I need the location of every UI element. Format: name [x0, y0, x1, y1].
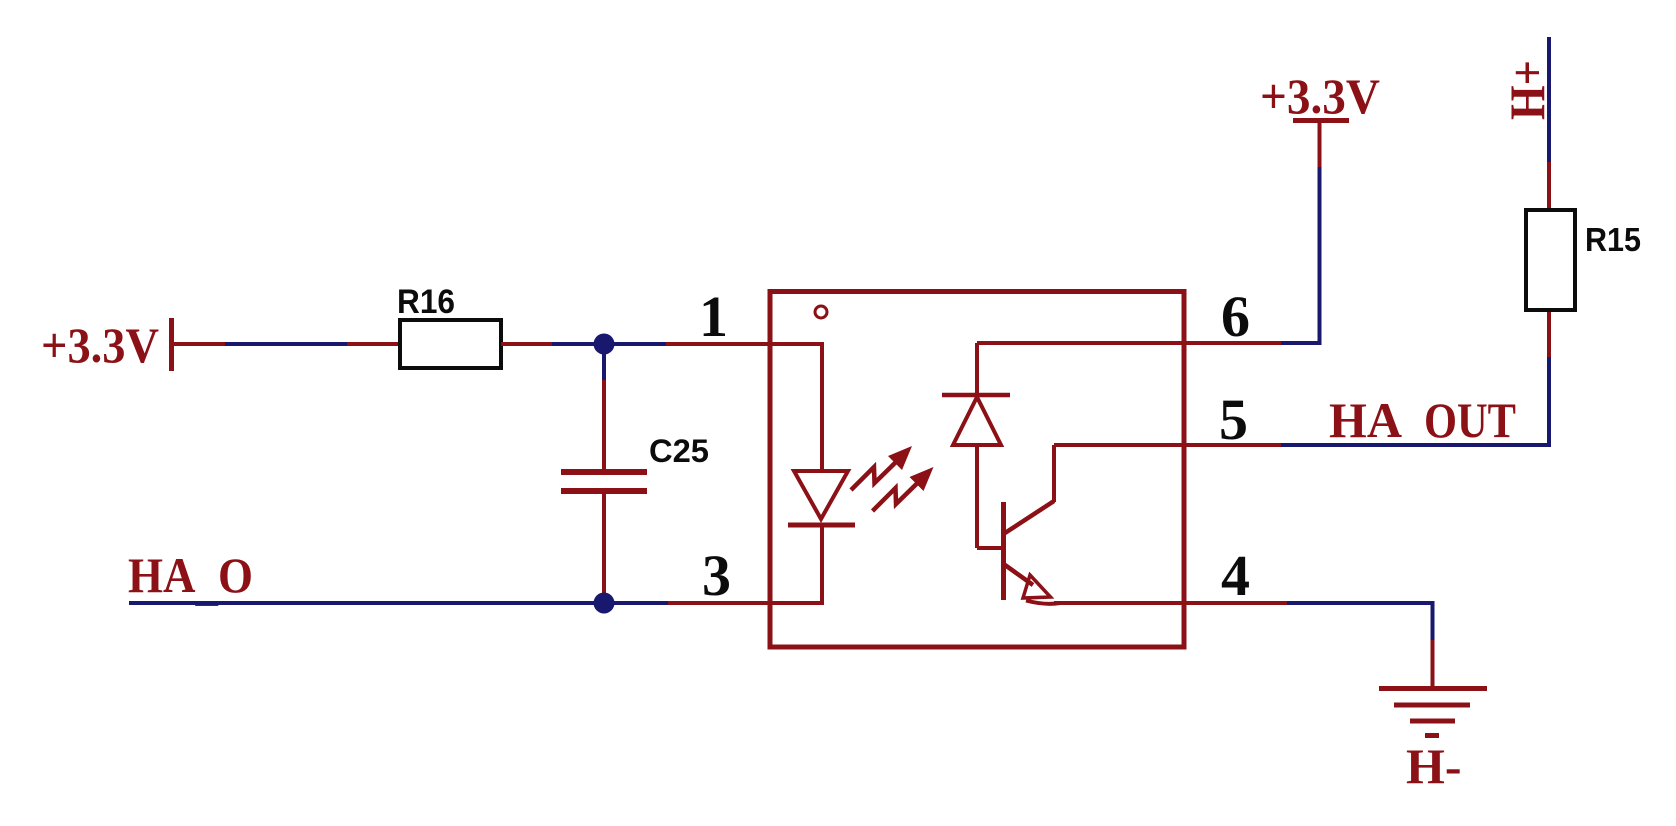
- pin 5 wire (blue segment): [1281, 443, 1551, 447]
- net label HA_OUT: [1329, 392, 1516, 448]
- wire HA_O rail (blue): [129, 601, 668, 605]
- wire corner up to +3.3V (blue): [1318, 167, 1322, 345]
- power +3.3V (left): [41, 317, 172, 373]
- wire node B to pin 3 (red segment into box): [668, 601, 824, 605]
- pin 1 indicator dot: [815, 306, 827, 318]
- svg-text:HA: HA: [1329, 392, 1402, 448]
- photodiode: [942, 343, 1010, 548]
- pin 6 wire (blue segment to corner): [1281, 341, 1322, 345]
- svg-text:OUT: OUT: [1424, 392, 1516, 448]
- wire node A to pin 1 (red segment into box): [666, 342, 824, 346]
- svg-text:R16: R16: [397, 283, 455, 321]
- svg-text:H-: H-: [1406, 738, 1462, 794]
- svg-text:HA_O: HA_O: [128, 547, 253, 610]
- wire +3.3V to R16 (blue segment): [225, 342, 347, 346]
- wire corner down to ground (blue): [1431, 603, 1435, 640]
- svg-text:+3.3V: +3.3V: [41, 317, 159, 373]
- wire +3.3V to R16 (red segment): [174, 342, 225, 346]
- node A junction dot: [594, 334, 615, 355]
- wire node A to pin 1 (blue segment): [604, 342, 666, 346]
- svg-text:1: 1: [699, 284, 728, 349]
- svg-text:+3.3V: +3.3V: [1260, 68, 1380, 124]
- pin 6 wire (red segment): [977, 341, 1281, 345]
- wire to R15 bottom (red): [1547, 312, 1551, 357]
- wire R15 top (red): [1547, 162, 1551, 208]
- svg-text:6: 6: [1221, 284, 1250, 349]
- power +3.3V (top): [1260, 68, 1380, 124]
- phototransistor: [1004, 445, 1061, 604]
- resistor R15: [1526, 210, 1575, 310]
- pin 5 wire (red segment): [1054, 443, 1281, 447]
- wire to H+ (blue): [1547, 37, 1551, 162]
- wire to +3.3V bar (red): [1318, 122, 1322, 167]
- svg-text:C25: C25: [649, 433, 709, 469]
- pin 4 wire (red segment): [1054, 601, 1287, 605]
- wire blue to R16 left (red segment): [347, 342, 400, 346]
- capacitor C25: [561, 344, 647, 594]
- wire to ground (red): [1431, 640, 1435, 687]
- LED emitter diode: [788, 344, 855, 605]
- svg-text:R15: R15: [1585, 221, 1641, 258]
- ground H-: [1379, 689, 1487, 736]
- svg-text:3: 3: [702, 543, 731, 608]
- svg-text:4: 4: [1221, 543, 1250, 608]
- wire R16 to node A (blue segment): [552, 342, 604, 346]
- wire R16 to node A (red segment): [501, 342, 552, 346]
- resistor R16: [400, 320, 501, 368]
- light emission arrows: [851, 446, 934, 511]
- pin 4 wire (blue segment): [1287, 601, 1435, 605]
- wire HA_OUT corner up (blue): [1547, 357, 1551, 447]
- svg-text:5: 5: [1219, 387, 1248, 452]
- node B junction dot: [594, 593, 615, 614]
- optocoupler body: [770, 292, 1184, 648]
- svg-text:H+: H+: [1499, 60, 1555, 120]
